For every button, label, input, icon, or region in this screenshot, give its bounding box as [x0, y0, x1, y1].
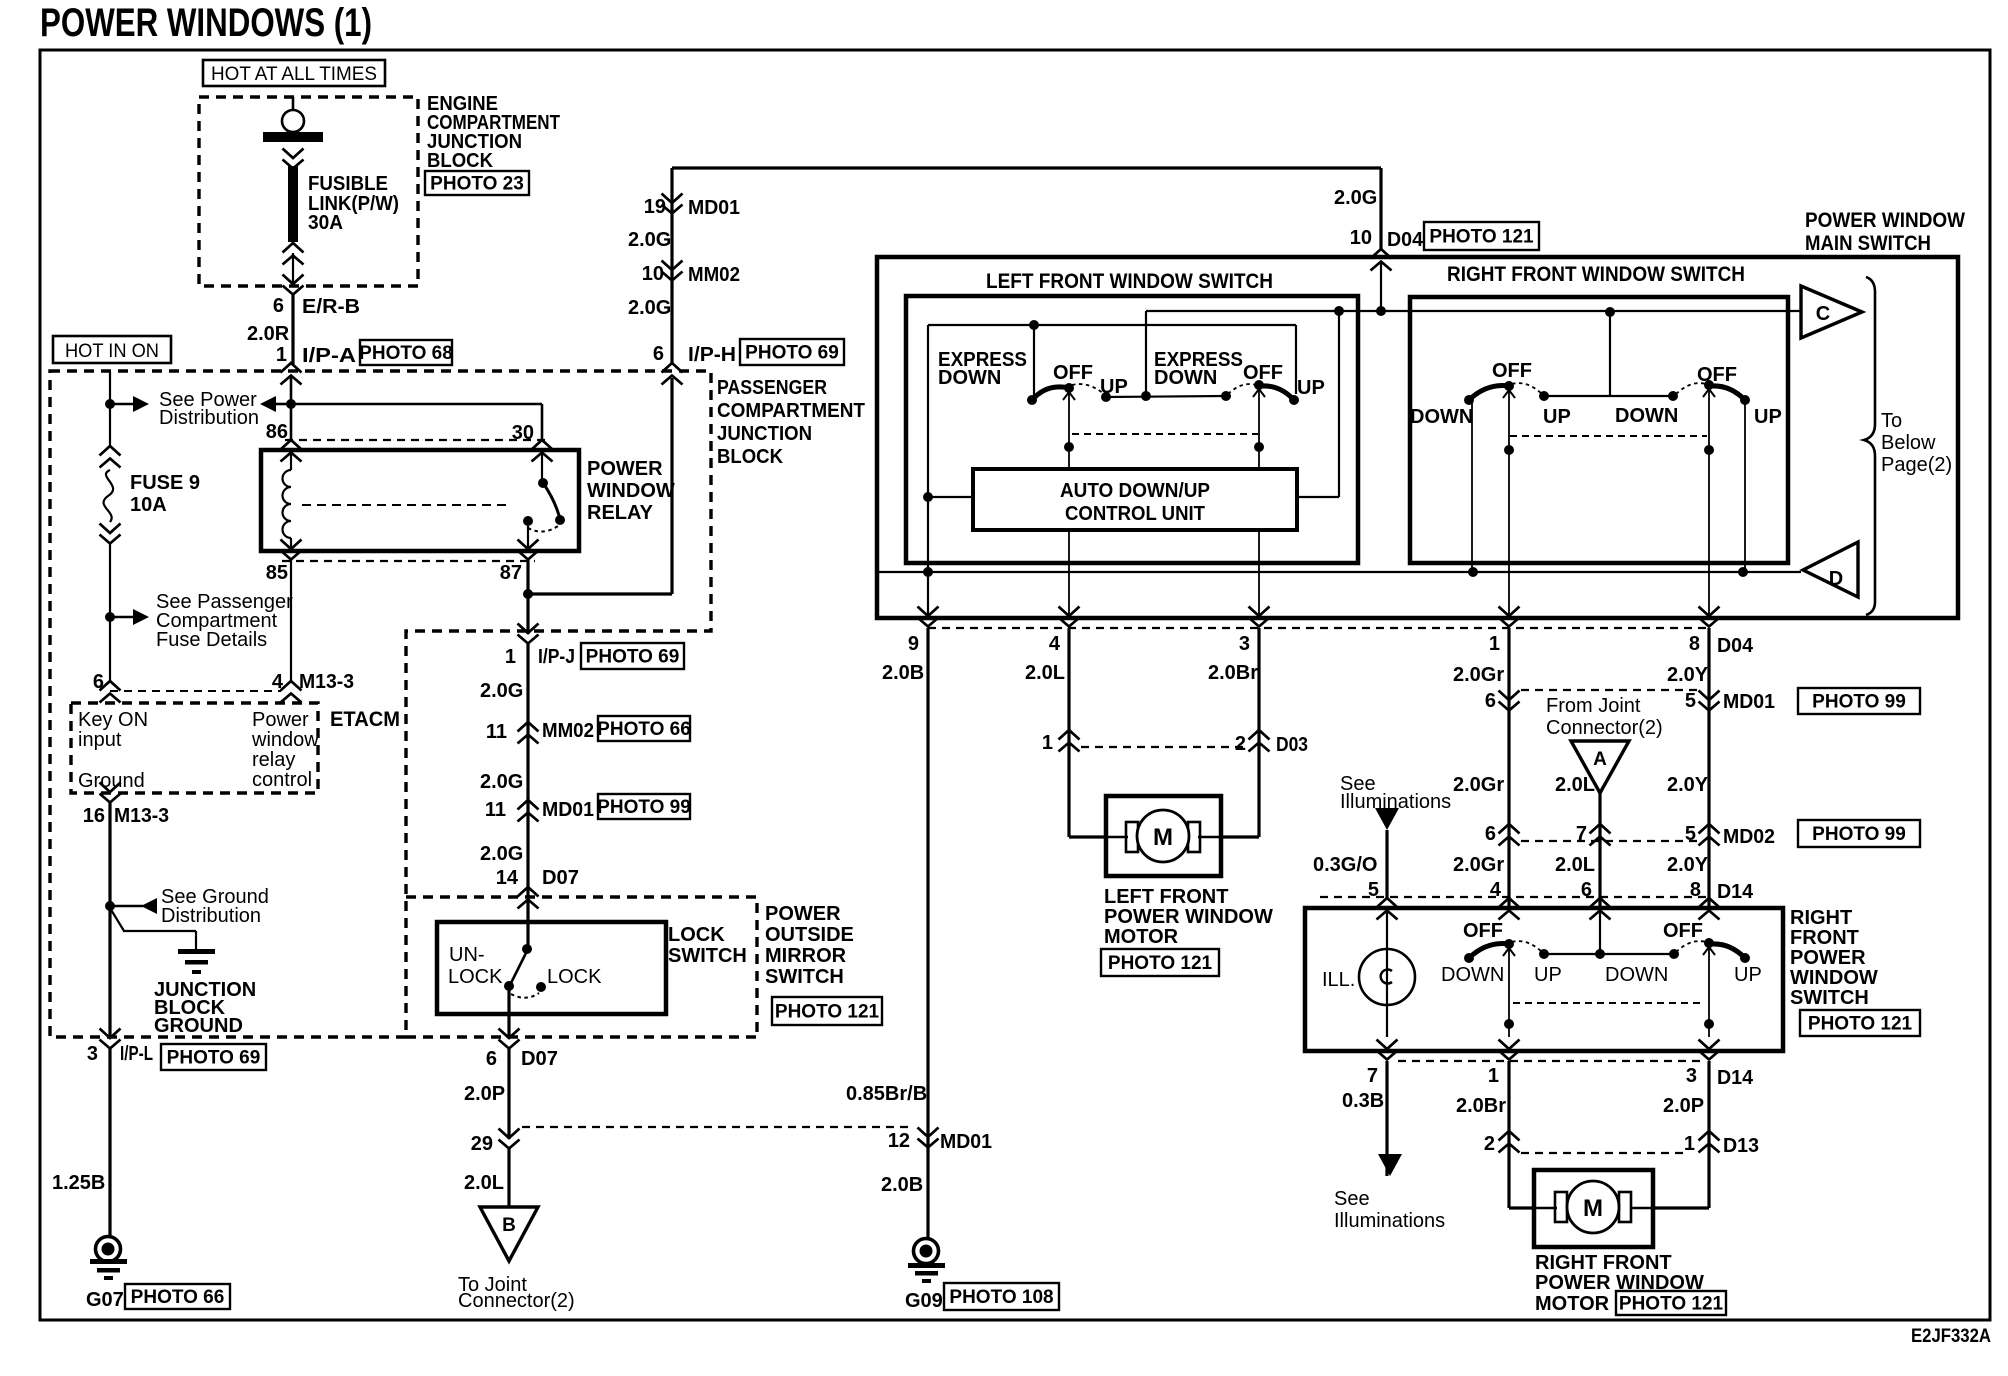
svg-text:7: 7 — [1367, 1065, 1378, 1087]
dashed junction boundary through relay pins 85 87 — [282, 560, 535, 562]
svg-text:PHOTO 121: PHOTO 121 — [1108, 953, 1213, 974]
wire 2.0L pin 4 to motor — [1025, 628, 1069, 837]
connector D14 top pins — [1368, 879, 1754, 920]
svg-text:MD01: MD01 — [940, 1131, 992, 1153]
dashed junction boundary through relay pins 86 30 — [285, 439, 548, 441]
express down feed to control unit left — [923, 492, 973, 502]
svg-text:2: 2 — [1235, 733, 1246, 755]
main switch pin 8 D04 — [1689, 607, 1754, 658]
wire 2.0L to joint connector B — [464, 1148, 509, 1208]
label POWER OUTSIDE MIRROR SWITCH — [765, 903, 854, 988]
wire relay pin 87 junction — [523, 559, 533, 634]
wire label 2.0G at D04 — [1334, 187, 1377, 209]
svg-text:MD01: MD01 — [1723, 691, 1775, 713]
label UP right power switch1 — [1534, 964, 1562, 986]
svg-text:D07: D07 — [521, 1048, 558, 1070]
wire relay 87 node to I/P-H riser — [528, 378, 672, 594]
inline connector MM02 pin 10 — [642, 261, 740, 287]
label OFF right switch1 — [1492, 360, 1532, 382]
svg-text:See: See — [1334, 1188, 1370, 1210]
svg-text:PHOTO 99: PHOTO 99 — [1812, 692, 1906, 713]
wire label 2.0Y mid right — [1667, 774, 1709, 796]
label RIGHT FRONT WINDOW SWITCH — [1447, 263, 1745, 286]
svg-text:2.0B: 2.0B — [882, 662, 924, 684]
svg-text:RELAY: RELAY — [587, 502, 654, 524]
connector chevron below fusible link — [283, 243, 304, 295]
ETACM module dashed box — [71, 703, 318, 793]
wire 2.0B pin 9 to G09 — [882, 628, 928, 1239]
svg-text:Connector(2): Connector(2) — [1546, 717, 1663, 739]
note See Power Distribution — [159, 389, 259, 429]
svg-text:PHOTO 121: PHOTO 121 — [1619, 1294, 1724, 1315]
svg-text:OFF: OFF — [1663, 920, 1703, 942]
svg-text:UP: UP — [1734, 964, 1762, 986]
photo ref PHOTO 121 (left motor) — [1101, 949, 1219, 976]
wire label 2.0G above MM02 — [628, 229, 671, 251]
svg-text:D07: D07 — [542, 867, 579, 889]
svg-text:PHOTO 66: PHOTO 66 — [597, 719, 691, 740]
svg-text:OFF: OFF — [1053, 362, 1093, 384]
svg-text:2.0Y: 2.0Y — [1667, 664, 1709, 686]
svg-text:PHOTO 69: PHOTO 69 — [745, 343, 839, 364]
wire label 2.0Gr mid right — [1453, 774, 1504, 796]
svg-text:85: 85 — [266, 562, 288, 584]
svg-text:To: To — [1881, 410, 1902, 432]
svg-text:HOT AT ALL TIMES: HOT AT ALL TIMES — [211, 64, 377, 85]
svg-text:Key ON: Key ON — [78, 709, 148, 731]
junction dot see power distribution left — [105, 396, 149, 412]
photo ref PHOTO 108 (G09) — [944, 1283, 1059, 1310]
svg-text:86: 86 — [266, 421, 288, 443]
svg-text:Connector(2): Connector(2) — [458, 1290, 575, 1312]
svg-text:6: 6 — [1485, 690, 1496, 712]
right switch contact cross wire — [1539, 391, 1678, 401]
photo ref PHOTO 69 (I/P-L) — [161, 1044, 266, 1070]
svg-text:From Joint: From Joint — [1546, 695, 1641, 717]
svg-text:UN-: UN- — [449, 944, 485, 966]
svg-text:PHOTO 99: PHOTO 99 — [1812, 824, 1906, 845]
ILL lamp — [1359, 910, 1415, 1037]
svg-text:2.0P: 2.0P — [464, 1083, 505, 1105]
connector D14 dashed boundary top — [1320, 896, 1712, 898]
svg-text:POWER: POWER — [587, 458, 663, 480]
svg-text:AUTO DOWN/UP: AUTO DOWN/UP — [1060, 480, 1210, 502]
wire 2.0R from fusible link to I/P-A — [291, 294, 294, 365]
wire D04 feed inside main switch to switch rails — [1146, 262, 1801, 316]
svg-text:4: 4 — [1049, 633, 1061, 655]
fusible link(P/W) 30A bar — [288, 166, 298, 242]
svg-text:2.0L: 2.0L — [1025, 662, 1065, 684]
label UP right power switch2 — [1734, 964, 1762, 986]
photo ref PHOTO 66 (G07) — [125, 1284, 230, 1309]
wire 2.0Gr pin 1 column — [1453, 628, 1509, 908]
svg-text:D14: D14 — [1717, 1067, 1754, 1089]
svg-text:I/P-A: I/P-A — [302, 345, 356, 367]
svg-text:LOCK: LOCK — [547, 966, 602, 988]
label POWER WINDOW MAIN SWITCH — [1805, 209, 1965, 255]
relay internal dashed link — [302, 504, 510, 506]
svg-text:PHOTO 99: PHOTO 99 — [597, 797, 691, 818]
wire label 0.85Br/B — [846, 1083, 927, 1105]
svg-text:I/P-H: I/P-H — [688, 344, 736, 366]
label OFF right power switch2 — [1663, 920, 1703, 942]
svg-text:WINDOW: WINDOW — [1790, 967, 1878, 989]
svg-text:RIGHT FRONT: RIGHT FRONT — [1535, 1252, 1672, 1274]
right power switch lever 1 — [1464, 939, 1549, 963]
svg-text:10: 10 — [642, 263, 664, 285]
page title POWER WINDOWS (1) — [40, 1, 372, 45]
figure code E2JF332A — [1911, 1326, 1991, 1347]
label OFF switch1 — [1053, 362, 1093, 384]
label G07 — [86, 1289, 124, 1311]
pin 6 E/R-B labels — [273, 295, 360, 318]
svg-text:Distribution: Distribution — [159, 407, 259, 429]
wire label 2.0G lower — [480, 843, 523, 865]
left switch lever 2 off position — [1228, 380, 1299, 405]
right power switch lever 2 — [1676, 938, 1750, 963]
label FUSE 9 10A — [130, 472, 200, 516]
connector D07 pin 6 — [486, 1029, 558, 1071]
label G09 — [905, 1290, 943, 1312]
wires from control unit to pins 4 and 3 — [1069, 530, 1259, 618]
svg-text:LEFT FRONT: LEFT FRONT — [1104, 886, 1228, 908]
svg-text:19: 19 — [644, 196, 666, 218]
right switch lever 1 down position — [1464, 381, 1542, 405]
svg-text:2: 2 — [1484, 1133, 1495, 1155]
svg-text:DOWN: DOWN — [1410, 406, 1473, 428]
relay coil — [283, 452, 292, 549]
svg-text:BLOCK: BLOCK — [427, 150, 494, 172]
note To Below Page(2) — [1881, 410, 1952, 476]
label JUNCTION BLOCK GROUND — [154, 979, 256, 1037]
svg-text:2.0Gr: 2.0Gr — [1453, 774, 1504, 796]
svg-text:D04: D04 — [1387, 229, 1424, 251]
wire 2.0Br pin 3 to motor — [1208, 628, 1259, 837]
svg-text:PHOTO 121: PHOTO 121 — [1429, 227, 1534, 248]
svg-text:control: control — [252, 769, 312, 791]
connector D04 dashed boundary — [928, 627, 1706, 629]
inline connector pin 29 — [471, 1129, 520, 1156]
right switch down-contact wire to bus — [1471, 400, 1473, 572]
relay pin 30 — [512, 422, 553, 462]
svg-text:9: 9 — [908, 633, 919, 655]
svg-text:Ground: Ground — [78, 770, 145, 792]
wire 2.0G riser I/P-H to top run — [670, 168, 673, 364]
power window main switch outer box — [877, 257, 1958, 618]
connector MD01 dashed boundary right — [1521, 689, 1697, 691]
svg-text:E/R-B: E/R-B — [302, 296, 360, 318]
photo ref PHOTO 69 (I/P-J) — [581, 643, 684, 669]
inline connector MM02 pin 11 — [486, 720, 594, 744]
svg-text:DOWN: DOWN — [1441, 964, 1504, 986]
right switch internal dashed link — [1510, 435, 1707, 437]
svg-text:2.0L: 2.0L — [1555, 774, 1595, 796]
wire I/P-A to relay pin 86 with see power distribution tap — [260, 376, 296, 441]
svg-text:relay: relay — [252, 749, 295, 771]
svg-text:MM02: MM02 — [688, 264, 740, 286]
label OFF right switch2 — [1697, 364, 1737, 386]
svg-text:D: D — [1829, 568, 1843, 590]
label UP switch1 — [1100, 376, 1128, 398]
lock switch box — [437, 922, 666, 1014]
label DOWN right power switch2 — [1605, 964, 1668, 986]
label DOWN right switch1 — [1410, 406, 1473, 428]
svg-text:SWITCH: SWITCH — [668, 945, 747, 967]
lock switch lever — [504, 944, 546, 998]
wire labels 2.0Gr 2.0L 2.0Y above D14 — [1453, 854, 1709, 876]
svg-text:MOTOR: MOTOR — [1535, 1293, 1610, 1315]
photo ref PHOTO 99 (MD02) — [1798, 820, 1920, 847]
svg-text:1.25B: 1.25B — [52, 1172, 105, 1194]
svg-text:GROUND: GROUND — [154, 1015, 243, 1037]
left front power window motor — [1069, 796, 1259, 876]
triangle connector C to below page — [1801, 286, 1862, 338]
connector MD02 dashed boundary — [1521, 840, 1697, 842]
svg-text:10: 10 — [1350, 227, 1372, 249]
photo ref PHOTO 23 — [425, 171, 529, 195]
wire from power distribution node to relay pin 30 — [291, 404, 542, 441]
inline connector MD01 pin 11 — [485, 799, 594, 822]
svg-text:M: M — [1153, 824, 1173, 851]
svg-text:2.0G: 2.0G — [480, 843, 523, 865]
svg-text:A: A — [1593, 749, 1607, 770]
label EXPRESS DOWN right — [1154, 349, 1243, 389]
right switch up-contact wire to bus — [1744, 400, 1746, 572]
svg-text:LEFT FRONT WINDOW SWITCH: LEFT FRONT WINDOW SWITCH — [986, 270, 1273, 293]
ETACM pin notes Key ON input / Ground / Power window relay control — [78, 709, 319, 792]
triangle connector A from joint connector — [1571, 741, 1629, 793]
wire lock switch to D07 pin 6 — [507, 988, 510, 1038]
svg-text:8: 8 — [1689, 633, 1700, 655]
svg-text:UP: UP — [1297, 377, 1325, 399]
svg-text:1: 1 — [1042, 732, 1053, 754]
svg-text:FRONT: FRONT — [1790, 927, 1859, 949]
svg-text:Power: Power — [252, 709, 309, 731]
svg-text:B: B — [502, 1215, 516, 1236]
svg-text:OUTSIDE: OUTSIDE — [765, 924, 854, 946]
svg-text:OFF: OFF — [1243, 362, 1283, 384]
left front window switch box — [906, 296, 1358, 563]
svg-text:HOT IN ON: HOT IN ON — [65, 341, 159, 362]
right front window switch box — [1410, 297, 1788, 563]
svg-text:MD01: MD01 — [542, 799, 594, 821]
svg-text:Fuse Details: Fuse Details — [156, 629, 267, 651]
svg-text:E2JF332A: E2JF332A — [1911, 1326, 1991, 1347]
right power switch lever wires to bottom pins — [1504, 947, 1714, 1037]
svg-text:2.0Br: 2.0Br — [1208, 662, 1258, 684]
svg-text:MOTOR: MOTOR — [1104, 926, 1179, 948]
inline connector D03 pin 2 — [1235, 730, 1308, 756]
svg-text:MAIN SWITCH: MAIN SWITCH — [1805, 232, 1931, 255]
wire 0.3B to see illuminations — [1342, 1061, 1402, 1176]
connector D04 pin 10 — [1350, 227, 1424, 271]
svg-text:DOWN: DOWN — [1605, 964, 1668, 986]
svg-text:PHOTO 23: PHOTO 23 — [430, 174, 524, 195]
left switch internal dashed link — [1072, 433, 1258, 435]
relay pin 86 — [266, 421, 302, 462]
connector D13 dashed boundary — [1521, 1152, 1688, 1154]
svg-text:2.0P: 2.0P — [1663, 1095, 1704, 1117]
svg-text:MIRROR: MIRROR — [765, 945, 847, 967]
svg-text:1: 1 — [1489, 633, 1500, 655]
wire 2.0Br pin 1 to motor — [1456, 1061, 1509, 1208]
svg-text:6: 6 — [1485, 823, 1496, 845]
label UP right switch1 — [1543, 406, 1571, 428]
svg-text:BLOCK: BLOCK — [717, 446, 784, 468]
ground G09 symbol — [908, 1239, 945, 1284]
junction dot see passenger compartment fuse details — [105, 609, 149, 625]
svg-text:LOCK: LOCK — [448, 966, 503, 988]
connector I/P-H pin 6 — [653, 343, 736, 385]
svg-text:M13-3: M13-3 — [299, 671, 354, 693]
passenger compartment junction block dashed outline (L-shape) — [50, 371, 711, 1037]
svg-text:3: 3 — [1239, 633, 1250, 655]
triangle connector D to below page — [1803, 542, 1858, 597]
svg-text:PHOTO 68: PHOTO 68 — [359, 343, 453, 364]
label UP switch2 — [1297, 377, 1325, 399]
junction dot see ground distribution — [105, 898, 157, 914]
svg-text:MD01: MD01 — [688, 197, 740, 219]
label box HOT AT ALL TIMES — [203, 60, 385, 86]
right switch lever wires to pins 1 and 8 — [1504, 389, 1714, 618]
svg-text:0.85Br/B: 0.85Br/B — [846, 1083, 927, 1105]
inline connector MD02 pin 6 — [1485, 823, 1520, 846]
inline connector D03 pin 1 — [1042, 730, 1080, 754]
connector I/P-J pin 1 — [505, 624, 575, 669]
inline connector MD01 pin 12 — [888, 1128, 992, 1154]
wire express rail to pin 9 — [923, 497, 933, 618]
label RIGHT FRONT POWER WINDOW SWITCH — [1790, 907, 1878, 1009]
power window relay box — [261, 450, 579, 551]
svg-text:input: input — [78, 729, 122, 751]
svg-text:1: 1 — [276, 344, 287, 366]
svg-text:2.0G: 2.0G — [628, 297, 671, 319]
photo ref PHOTO 68 — [359, 340, 453, 365]
inline connector MD01 pin 19 — [644, 194, 740, 220]
svg-text:CONTROL UNIT: CONTROL UNIT — [1065, 503, 1205, 525]
svg-text:2.0G: 2.0G — [480, 771, 523, 793]
label AUTO DOWN/UP CONTROL UNIT — [1060, 480, 1210, 525]
main switch pin 9 — [908, 607, 939, 656]
svg-text:ILL.: ILL. — [1322, 969, 1355, 991]
connector D14 bottom pins — [1367, 1040, 1754, 1090]
svg-text:1: 1 — [1684, 1133, 1695, 1155]
svg-text:0.3G/O: 0.3G/O — [1313, 854, 1377, 876]
svg-text:2.0Gr: 2.0Gr — [1453, 664, 1504, 686]
svg-text:POWER WINDOW: POWER WINDOW — [1104, 906, 1273, 928]
label UP right switch2 — [1754, 406, 1782, 428]
express-down right rail box — [1146, 311, 1296, 396]
label FUSIBLE LINK(P/W) 30A — [308, 173, 399, 234]
wire 2.0P pin 3 to motor — [1663, 1061, 1709, 1208]
svg-text:OFF: OFF — [1697, 364, 1737, 386]
svg-text:2.0G: 2.0G — [1334, 187, 1377, 209]
svg-text:DOWN: DOWN — [938, 367, 1001, 389]
left switch express-down left rail — [928, 320, 1296, 497]
svg-text:DOWN: DOWN — [1615, 405, 1678, 427]
label OFF switch2 — [1243, 362, 1283, 384]
engine compartment junction block dashed box — [199, 97, 418, 286]
photo ref PHOTO 121 (right switch) — [1800, 1010, 1920, 1036]
label OFF right power switch1 — [1463, 920, 1503, 942]
wire ETACM ground to junction block ground — [108, 802, 111, 1038]
wire label 2.0G mid — [480, 771, 523, 793]
svg-text:D13: D13 — [1723, 1135, 1759, 1157]
svg-text:11: 11 — [486, 721, 507, 743]
svg-text:1: 1 — [505, 646, 516, 668]
svg-text:DOWN: DOWN — [1154, 367, 1217, 389]
svg-text:UP: UP — [1543, 406, 1571, 428]
svg-text:D03: D03 — [1276, 734, 1308, 756]
svg-text:I/P-J: I/P-J — [538, 646, 575, 668]
brace to below page(2) — [1864, 277, 1875, 615]
svg-text:OFF: OFF — [1492, 360, 1532, 382]
svg-text:87: 87 — [500, 562, 522, 584]
right switch lever 2 off position — [1676, 380, 1750, 405]
svg-text:COMPARTMENT: COMPARTMENT — [717, 400, 865, 422]
ETACM pin 4 chevron and label M13-3 — [272, 671, 354, 703]
svg-text:G09: G09 — [905, 1290, 943, 1312]
label DOWN right switch2 — [1615, 405, 1678, 427]
ETACM pin 6 chevron and label — [93, 671, 281, 703]
svg-text:2.0G: 2.0G — [480, 680, 523, 702]
svg-text:6: 6 — [486, 1048, 497, 1070]
triangle connector B to joint connector(2) — [480, 1207, 538, 1261]
svg-text:6: 6 — [653, 343, 664, 365]
svg-text:Illuminations: Illuminations — [1334, 1210, 1445, 1232]
label ILL. — [1322, 969, 1355, 991]
label EXPRESS DOWN left — [938, 349, 1027, 389]
photo ref PHOTO 121 (mirror switch) — [772, 997, 882, 1025]
main switch pin 4 — [1049, 607, 1080, 656]
svg-text:FUSE 9: FUSE 9 — [130, 472, 200, 494]
inline connector MD02 pin 5 — [1685, 823, 1775, 848]
svg-text:2.0Y: 2.0Y — [1667, 774, 1709, 796]
svg-text:WINDOW: WINDOW — [587, 480, 675, 502]
inline connector MD02 pin 7 — [1576, 823, 1611, 846]
svg-text:OFF: OFF — [1463, 920, 1503, 942]
note See Ground Distribution — [161, 886, 269, 927]
svg-text:PHOTO 66: PHOTO 66 — [131, 1287, 225, 1308]
photo ref PHOTO 121 (right motor) — [1616, 1291, 1726, 1315]
ETACM ground pin 16 M13-3 — [83, 783, 169, 828]
switch1 up contact and cross wire — [1101, 391, 1231, 402]
svg-text:Page(2): Page(2) — [1881, 454, 1952, 476]
svg-text:Distribution: Distribution — [161, 905, 261, 927]
svg-text:30A: 30A — [308, 212, 343, 234]
wire 2.0P to connector 29 — [464, 1048, 509, 1139]
right front power window motor — [1509, 1170, 1709, 1247]
svg-text:POWER: POWER — [765, 903, 841, 925]
power outside mirror switch dashed box — [406, 897, 757, 1037]
svg-text:UP: UP — [1534, 964, 1562, 986]
wire label 2.0R — [247, 323, 290, 345]
relay switch contacts — [523, 452, 565, 549]
note See Illuminations lower — [1334, 1188, 1445, 1232]
wire relay pin 85 to ETACM pin 4 — [290, 559, 292, 683]
svg-text:M: M — [1583, 1195, 1603, 1222]
svg-text:3: 3 — [1686, 1065, 1697, 1087]
svg-text:29: 29 — [471, 1133, 493, 1155]
junction block ground symbol — [110, 908, 215, 974]
svg-text:2.0G: 2.0G — [628, 229, 671, 251]
svg-text:2.0B: 2.0B — [881, 1174, 923, 1196]
inline connector D13 pin 2 — [1484, 1131, 1520, 1155]
note See Illuminations upper — [1340, 773, 1451, 830]
svg-text:10A: 10A — [130, 494, 167, 516]
ground G07 symbol — [90, 1237, 127, 1281]
svg-text:POWER: POWER — [1790, 947, 1866, 969]
